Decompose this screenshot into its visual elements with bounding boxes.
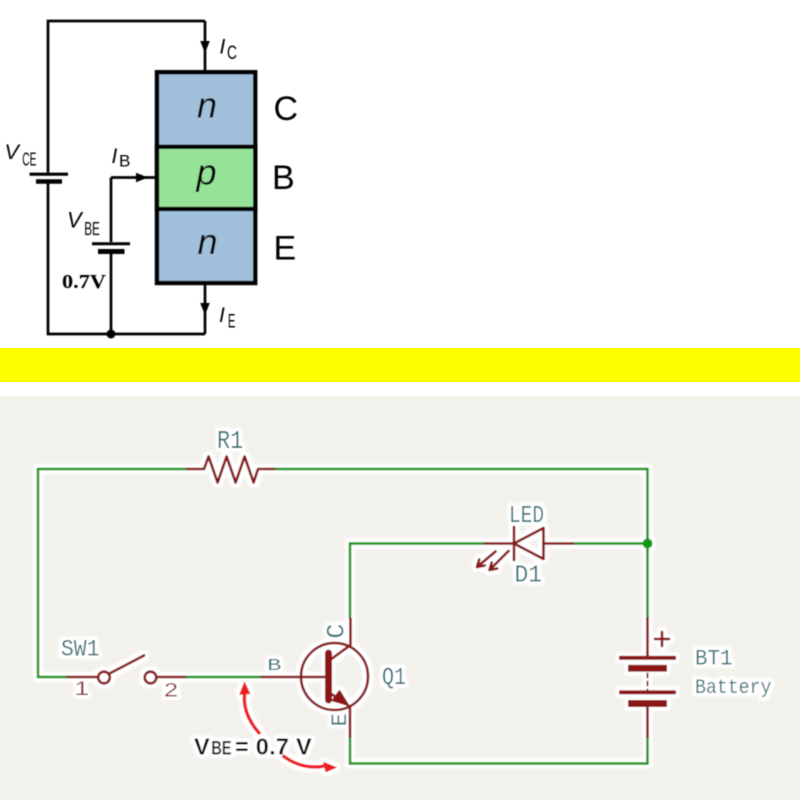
svg-text:D1: D1 — [515, 562, 543, 590]
svg-text:R1: R1 — [217, 427, 243, 456]
svg-text:E: E — [228, 312, 236, 333]
svg-text:BT1: BT1 — [695, 647, 732, 672]
svg-text:C: C — [274, 90, 299, 128]
svg-text:B: B — [119, 152, 130, 171]
svg-text:= 0.7 V: = 0.7 V — [235, 734, 312, 760]
svg-text:0.7V: 0.7V — [62, 272, 106, 293]
svg-text:C: C — [323, 624, 352, 639]
svg-text:p: p — [196, 152, 217, 193]
svg-text:B: B — [272, 159, 295, 197]
svg-text:Q1: Q1 — [382, 664, 406, 691]
svg-text:BE: BE — [84, 219, 100, 239]
svg-text:Battery: Battery — [695, 676, 771, 699]
svg-text:I: I — [220, 36, 226, 59]
svg-text:n: n — [198, 221, 218, 262]
svg-text:E: E — [328, 713, 353, 726]
svg-text:2: 2 — [164, 679, 178, 701]
svg-text:I: I — [219, 304, 225, 327]
svg-text:CE: CE — [22, 150, 36, 170]
svg-text:SW1: SW1 — [61, 637, 99, 663]
svg-text:B: B — [267, 657, 281, 676]
svg-text:I: I — [112, 145, 118, 168]
svg-text:LED: LED — [509, 502, 544, 529]
svg-text:V: V — [67, 208, 84, 233]
svg-text:1: 1 — [75, 677, 90, 699]
svg-text:V: V — [194, 734, 210, 760]
svg-text:C: C — [227, 43, 237, 64]
svg-text:n: n — [197, 84, 217, 125]
svg-text:E: E — [222, 738, 232, 759]
svg-text:B: B — [211, 738, 222, 759]
svg-text:E: E — [274, 230, 297, 268]
